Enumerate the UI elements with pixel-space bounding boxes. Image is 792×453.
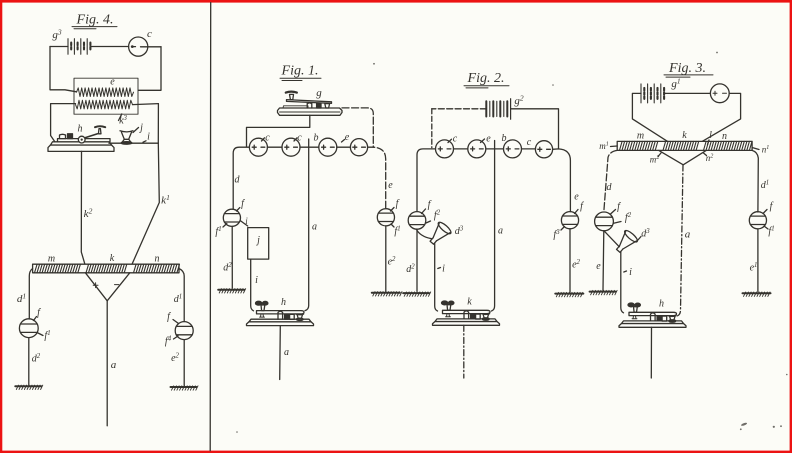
wire i horn down to key (fig2) xyxy=(435,244,438,311)
wire c2-c3 with b junction xyxy=(300,146,319,148)
label f4 tick (fig4 right) xyxy=(165,336,178,348)
wire c3-c4 with label c (fig2) xyxy=(522,137,536,149)
svg-text:h: h xyxy=(659,299,664,310)
wire bar left end down d (fig3) xyxy=(604,150,617,212)
ground (fig1 left) xyxy=(218,289,246,293)
receiver f (fig1 right) xyxy=(377,209,394,226)
wire k1 from right vertical down to commutator bar xyxy=(130,143,159,268)
svg-text:k: k xyxy=(467,297,472,308)
label k3 tick xyxy=(119,114,128,127)
svg-text:d2: d2 xyxy=(32,353,41,365)
polarity plus mark xyxy=(93,283,98,288)
label f tick (fig3 left) xyxy=(611,202,622,215)
label n2 tick (fig3) xyxy=(704,153,714,163)
label f-prime tick (fig4 left) xyxy=(38,330,51,342)
svg-text:f: f xyxy=(580,201,584,212)
label f1 tick (fig3 right) xyxy=(764,226,775,238)
wire key to contact j and right vertical xyxy=(109,142,158,144)
wire battery left to left vertical xyxy=(50,46,68,48)
label f1 tick (fig1 right) xyxy=(391,224,401,237)
wire below key (fig3) xyxy=(650,327,652,378)
svg-text:f2: f2 xyxy=(434,210,441,222)
svg-text:i: i xyxy=(442,264,445,275)
svg-text:k1: k1 xyxy=(161,193,170,207)
relay f (fig4 left) xyxy=(19,319,38,338)
sounder horn d3 (fig3) xyxy=(617,229,639,253)
svg-text:a: a xyxy=(685,229,691,241)
svg-text:Fig. 3.: Fig. 3. xyxy=(668,61,706,76)
Fig. 4 caption xyxy=(72,13,117,29)
svg-text:n: n xyxy=(722,131,727,142)
svg-text:d1: d1 xyxy=(761,180,769,192)
svg-text:n2: n2 xyxy=(706,153,714,163)
pole changer circle 3 (fig2) xyxy=(504,140,522,158)
polarity minus mark xyxy=(115,284,119,286)
svg-text:i: i xyxy=(147,132,150,143)
battery g1 xyxy=(641,84,664,103)
ground (fig4 right) xyxy=(171,386,199,390)
label f tick (fig1 left) xyxy=(237,199,246,212)
svg-text:d1: d1 xyxy=(17,292,26,306)
svg-text:Fig. 1.: Fig. 1. xyxy=(281,64,319,79)
wire f to ground e (fig3) xyxy=(602,231,605,290)
label f3 tick (fig2 right) xyxy=(553,227,564,241)
label f tick (fig2 right) xyxy=(575,201,585,214)
svg-text:a: a xyxy=(284,347,289,358)
svg-text:e2: e2 xyxy=(388,256,396,268)
svg-text:f3: f3 xyxy=(553,229,560,241)
wire i from box j down to key (fig1) xyxy=(251,259,254,311)
wire row2 right xyxy=(133,104,159,105)
receiver f (fig1 left) xyxy=(223,209,240,226)
Fig. 2 caption xyxy=(464,71,509,88)
contact cup j (fig4) xyxy=(120,131,133,144)
wire f to sounder horn (fig3) xyxy=(604,231,619,247)
receiver f (fig3 right) xyxy=(749,212,766,229)
pole changer circle 4 (fig2) xyxy=(535,141,552,158)
label f2 tick (fig3 left) xyxy=(614,212,632,224)
label f1 tick (fig1 left) xyxy=(215,224,226,238)
Fig. 3 caption xyxy=(664,61,713,77)
telegraph key h (fig3 bottom) xyxy=(619,303,686,327)
label f tick (fig4 right) xyxy=(167,312,178,324)
label i (fig3) xyxy=(624,267,632,278)
wire k2 from key pivot down to commutator bar xyxy=(81,151,85,264)
svg-text:f: f xyxy=(617,202,621,213)
svg-text:e1: e1 xyxy=(750,262,758,274)
svg-text:f1: f1 xyxy=(215,226,221,238)
wire meter right and down (fig3) xyxy=(699,93,740,143)
transmitter key g (fig1) xyxy=(278,92,343,116)
wire battery right lead (fig2) xyxy=(511,109,559,149)
wire a (fig4) xyxy=(106,301,108,426)
svg-text:f1: f1 xyxy=(44,330,50,342)
label i (fig2) xyxy=(438,264,445,275)
wire c3-c4 xyxy=(337,146,351,148)
svg-text:e: e xyxy=(486,134,491,145)
svg-text:f: f xyxy=(241,199,245,210)
wire c1-c2 (fig2) xyxy=(454,148,468,150)
wire key right to right vertical (fig1) xyxy=(342,108,373,147)
svg-text:c: c xyxy=(147,28,152,40)
svg-text:n: n xyxy=(155,254,160,265)
pole changer circle 2 (fig2) xyxy=(468,140,486,158)
svg-text:e: e xyxy=(574,192,579,203)
galvanometer circle (fig3) xyxy=(710,84,729,103)
label e tick (fig2 c2) xyxy=(481,134,492,145)
label n1 tick (fig3) xyxy=(752,145,769,155)
telegraph key k (fig2 bottom) xyxy=(433,301,500,325)
svg-text:e: e xyxy=(110,77,115,88)
svg-text:a: a xyxy=(312,222,317,233)
svg-text:f: f xyxy=(37,308,41,319)
ground (fig2 left) xyxy=(403,292,431,296)
wire c2-c3 (fig2) xyxy=(486,148,504,150)
relay f4 (fig4 right) xyxy=(175,322,193,340)
pole changer circle 1 (fig1) xyxy=(249,138,267,156)
wire f to ground (fig1 right) xyxy=(385,226,387,292)
svg-text:f: f xyxy=(770,201,774,212)
svg-text:e2: e2 xyxy=(171,353,179,365)
svg-text:f1: f1 xyxy=(768,226,774,238)
receiver f (fig2 left) xyxy=(408,212,426,230)
wire bar right end down d1 (fig3) xyxy=(752,150,758,212)
svg-text:i: i xyxy=(629,267,632,278)
svg-text:f1: f1 xyxy=(394,226,400,238)
svg-text:c: c xyxy=(265,133,270,144)
wire relay to ground (fig4 left) xyxy=(28,338,30,385)
line b/a from row down to key (fig1) xyxy=(305,139,309,311)
resistance box e xyxy=(74,78,138,114)
svg-text:g1: g1 xyxy=(671,77,680,91)
svg-text:f4: f4 xyxy=(165,336,172,348)
wire relay to ground (fig4 right) xyxy=(183,340,185,386)
label e tick (fig1 c4) xyxy=(342,132,350,143)
svg-text:d: d xyxy=(607,182,613,193)
label m1 tick (fig3) xyxy=(599,141,617,151)
resistor coil row 2 xyxy=(76,100,133,109)
wire f to sounder horn (fig2) xyxy=(416,229,431,239)
svg-text:i: i xyxy=(245,216,248,226)
ground (fig3 left inner) xyxy=(590,290,618,294)
wire f to ground (fig3 right) xyxy=(757,229,759,292)
telegraph key h (fig4) xyxy=(48,126,114,151)
wire below key dash-dot (fig2) xyxy=(463,325,465,378)
svg-text:l: l xyxy=(709,130,712,141)
commutator bar m k l n (fig3) xyxy=(617,141,752,150)
wire f to ground (fig2 right) xyxy=(569,229,571,292)
ground (fig4 left) xyxy=(15,385,43,389)
svg-text:m: m xyxy=(48,254,55,265)
galvanometer c xyxy=(129,37,148,56)
svg-text:f: f xyxy=(428,200,432,211)
svg-text:d3: d3 xyxy=(641,228,650,240)
wire row2 left to key xyxy=(51,104,76,142)
svg-text:e: e xyxy=(388,180,393,191)
brush V below bar (fig4) xyxy=(85,273,129,301)
svg-text:d: d xyxy=(235,175,241,186)
pole changer circle 4 (fig1) xyxy=(350,139,367,156)
receiver f (fig2 right) xyxy=(561,212,578,229)
svg-text:m1: m1 xyxy=(599,141,609,151)
wire circles row left end (fig2) xyxy=(417,149,436,212)
wire battery left and down (fig3) xyxy=(632,93,670,143)
svg-text:d3: d3 xyxy=(455,226,464,238)
svg-text:n1: n1 xyxy=(762,145,770,155)
wire below key (fig1) xyxy=(279,326,282,380)
label c tick (fig1 c2) xyxy=(294,133,302,144)
telegraph key h (fig1 bottom) xyxy=(247,301,314,325)
ground (fig2 right) xyxy=(555,292,583,296)
wire left vertical upper xyxy=(50,47,77,92)
svg-text:g: g xyxy=(316,87,322,99)
wire c4 to right vertical junction and curve down (fig1) xyxy=(368,147,386,209)
svg-text:i: i xyxy=(255,275,258,286)
wire battery to meter (fig3) xyxy=(665,92,711,94)
wire f to relay box j xyxy=(240,216,248,226)
svg-text:g2: g2 xyxy=(514,94,524,108)
svg-text:e: e xyxy=(596,261,601,272)
wire battery left lead (fig2) xyxy=(432,108,487,110)
pole changer circle 1 (fig2) xyxy=(436,140,454,158)
svg-text:d2: d2 xyxy=(406,264,415,276)
wire i horn down to key (fig3) xyxy=(621,252,624,313)
svg-text:Fig. 4.: Fig. 4. xyxy=(76,13,114,28)
label i (fig4) xyxy=(143,132,150,143)
svg-text:c: c xyxy=(453,134,458,145)
svg-text:d1: d1 xyxy=(174,294,182,306)
scan specks (decorative) xyxy=(236,52,787,433)
svg-text:f: f xyxy=(167,312,171,323)
Fig. 1 caption xyxy=(280,64,321,81)
wire battery left vertical (fig2) xyxy=(431,109,433,148)
svg-text:h: h xyxy=(78,124,83,135)
svg-text:d2: d2 xyxy=(223,262,232,274)
label f tick (fig3 right) xyxy=(763,201,774,214)
svg-text:c: c xyxy=(527,137,532,148)
wire c4 right junction curve down (fig2) xyxy=(553,149,571,212)
battery g3 xyxy=(68,39,90,55)
wire c1-c2 xyxy=(267,146,282,148)
svg-text:c: c xyxy=(297,133,302,144)
svg-text:k3: k3 xyxy=(119,115,127,127)
label f tick (fig4 left) xyxy=(34,308,42,321)
panel divider line xyxy=(209,3,212,451)
battery g2 xyxy=(486,99,510,120)
label c tick (fig1 c1) xyxy=(262,133,271,144)
wire a dash-dot from brush down to key (fig3) xyxy=(678,165,684,316)
wire circles row left end (fig1) xyxy=(233,147,249,209)
wire bar right end down (d1 branch) xyxy=(179,269,184,322)
wire f to ground (fig2 left) xyxy=(416,229,418,291)
wire bar left end down (d-prime branch) xyxy=(29,269,32,320)
label f2 tick (fig2 left) xyxy=(426,210,441,224)
svg-text:m2: m2 xyxy=(650,155,660,165)
label f tick (fig1 right) xyxy=(391,199,400,212)
label d3 tick (fig3) xyxy=(638,228,651,241)
svg-text:Fig. 2.: Fig. 2. xyxy=(467,71,505,86)
line b/a from row down to key (fig2) xyxy=(492,141,495,312)
svg-text:k: k xyxy=(110,253,115,264)
svg-text:k2: k2 xyxy=(84,207,93,221)
svg-text:m: m xyxy=(637,131,644,142)
label c tick (fig2 c1) xyxy=(448,134,458,145)
pole changer circle 3 (fig1) xyxy=(319,138,337,156)
wire meter c to right vertical xyxy=(148,46,161,48)
label j tick xyxy=(133,123,143,134)
svg-text:f: f xyxy=(396,199,400,210)
svg-text:e2: e2 xyxy=(572,259,580,271)
svg-text:b: b xyxy=(314,133,319,144)
commutator bar m k n (fig4) xyxy=(33,264,180,273)
wire key pivot down and left (fig1) xyxy=(247,115,310,146)
svg-text:a: a xyxy=(111,359,117,371)
svg-text:e: e xyxy=(345,132,350,143)
ground (fig1 right) xyxy=(372,292,402,296)
wire battery right to meter c xyxy=(90,46,128,48)
svg-text:g3: g3 xyxy=(52,28,62,42)
svg-text:f2: f2 xyxy=(625,212,632,224)
wire right vertical upper xyxy=(139,47,162,91)
ground (fig3 right) xyxy=(743,292,771,296)
label f tick (fig2 left) xyxy=(422,200,432,214)
resistor coil row 1 xyxy=(77,88,134,97)
receiver f (fig3 left) xyxy=(595,212,614,231)
brush V below bar (fig3) xyxy=(659,150,706,164)
svg-text:k: k xyxy=(682,130,687,141)
sounder horn d3 (fig2) xyxy=(430,221,452,245)
svg-text:a: a xyxy=(498,226,503,237)
svg-text:h: h xyxy=(281,297,286,308)
label l tick (fig3) xyxy=(708,130,713,145)
wire right vertical to key level xyxy=(157,104,159,144)
pole changer circle 2 (fig1) xyxy=(282,138,300,156)
label m2 tick (fig3) xyxy=(650,153,661,165)
wire f to ground (fig1 left) xyxy=(231,226,233,288)
relay box j xyxy=(248,228,269,260)
